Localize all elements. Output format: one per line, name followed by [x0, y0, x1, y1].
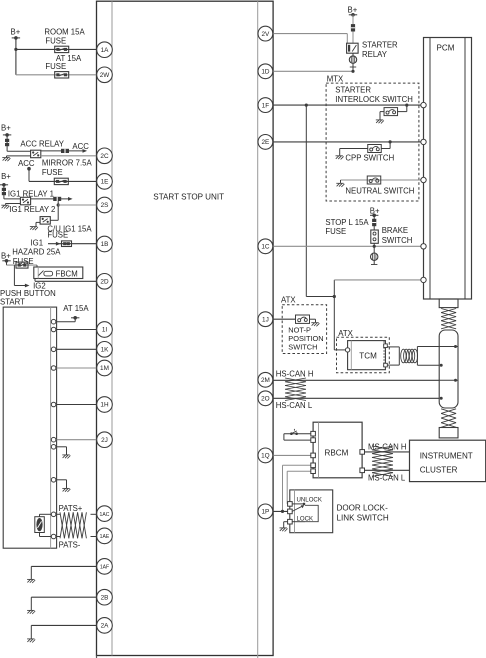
svg-text:B+: B+	[1, 172, 11, 181]
svg-text:ACC: ACC	[72, 142, 89, 151]
svg-text:1J: 1J	[262, 316, 269, 323]
svg-text:CPP SWITCH: CPP SWITCH	[345, 154, 394, 163]
svg-text:1M: 1M	[100, 365, 109, 372]
svg-text:2C: 2C	[100, 153, 109, 160]
svg-text:STOP L 15A: STOP L 15A	[325, 218, 369, 227]
svg-text:1AE: 1AE	[100, 534, 110, 540]
svg-text:ACC RELAY: ACC RELAY	[20, 140, 64, 149]
svg-text:IG1: IG1	[31, 238, 44, 247]
svg-text:2D: 2D	[100, 279, 109, 286]
svg-text:1AC: 1AC	[100, 512, 110, 518]
svg-text:B+: B+	[1, 123, 11, 132]
svg-text:1I: 1I	[102, 327, 108, 334]
svg-text:BRAKE: BRAKE	[382, 226, 408, 235]
svg-text:AT 15A: AT 15A	[63, 304, 89, 313]
svg-text:MTX: MTX	[327, 75, 344, 84]
svg-text:START STOP UNIT: START STOP UNIT	[153, 192, 224, 201]
svg-text:1B: 1B	[101, 241, 109, 248]
svg-text:1K: 1K	[101, 347, 110, 354]
svg-text:1F: 1F	[262, 102, 270, 109]
svg-text:RELAY: RELAY	[362, 50, 388, 59]
svg-text:1H: 1H	[100, 402, 109, 409]
svg-text:FUSE: FUSE	[325, 227, 346, 236]
svg-text:1AF: 1AF	[100, 565, 109, 571]
svg-text:ATX: ATX	[281, 295, 296, 304]
svg-text:1A: 1A	[101, 47, 110, 54]
svg-text:FUSE: FUSE	[42, 168, 63, 177]
svg-text:PATS+: PATS+	[59, 504, 83, 513]
svg-text:HS-CAN H: HS-CAN H	[276, 370, 314, 379]
svg-text:2S: 2S	[101, 202, 109, 209]
svg-text:2O: 2O	[261, 396, 270, 403]
svg-text:INTERLOCK SWITCH: INTERLOCK SWITCH	[335, 95, 413, 104]
svg-text:2B: 2B	[101, 594, 109, 601]
svg-text:B+: B+	[11, 27, 21, 36]
svg-text:STARTER: STARTER	[335, 86, 371, 95]
svg-text:POSITION: POSITION	[288, 334, 323, 343]
svg-text:SWITCH: SWITCH	[288, 343, 317, 352]
svg-text:IG1 RELAY 1: IG1 RELAY 1	[8, 189, 54, 198]
svg-text:TCM: TCM	[359, 352, 377, 361]
svg-text:2W: 2W	[100, 72, 111, 79]
svg-text:2M: 2M	[261, 377, 270, 384]
svg-text:IG1 RELAY 2: IG1 RELAY 2	[9, 205, 55, 214]
svg-text:2J: 2J	[101, 437, 108, 444]
svg-text:INSTRUMENT: INSTRUMENT	[420, 451, 473, 460]
svg-text:2V: 2V	[261, 31, 270, 38]
svg-text:1E: 1E	[101, 179, 109, 186]
svg-text:MS-CAN L: MS-CAN L	[368, 474, 406, 483]
svg-text:NEUTRAL SWITCH: NEUTRAL SWITCH	[345, 187, 414, 196]
svg-text:MIRROR 7.5A: MIRROR 7.5A	[42, 158, 93, 167]
svg-text:HAZARD 25A: HAZARD 25A	[12, 248, 61, 257]
svg-text:PCM: PCM	[437, 44, 455, 53]
svg-text:CLUSTER: CLUSTER	[420, 465, 458, 474]
svg-text:UNLOCK: UNLOCK	[297, 497, 322, 504]
svg-text:1P: 1P	[261, 509, 269, 516]
svg-text:B+: B+	[1, 251, 11, 260]
svg-text:HS-CAN L: HS-CAN L	[276, 401, 313, 410]
svg-text:STARTER: STARTER	[362, 41, 398, 50]
svg-text:LINK SWITCH: LINK SWITCH	[337, 514, 389, 523]
svg-text:1Q: 1Q	[261, 453, 270, 460]
svg-text:FUSE: FUSE	[47, 231, 68, 240]
svg-text:1D: 1D	[261, 69, 270, 76]
svg-text:2A: 2A	[101, 623, 110, 630]
svg-text:DOOR LOCK-: DOOR LOCK-	[337, 503, 389, 512]
svg-text:PATS-: PATS-	[59, 541, 81, 550]
svg-text:FUSE: FUSE	[45, 62, 66, 71]
svg-text:SWITCH: SWITCH	[382, 236, 413, 245]
svg-text:FUSE: FUSE	[45, 36, 66, 45]
svg-text:ACC: ACC	[18, 159, 35, 168]
svg-text:START: START	[0, 297, 25, 306]
svg-text:RBCM: RBCM	[325, 449, 349, 458]
svg-text:2E: 2E	[261, 139, 269, 146]
svg-text:1C: 1C	[261, 244, 270, 251]
svg-text:FBCM: FBCM	[56, 269, 78, 278]
svg-text:ROOM 15A: ROOM 15A	[44, 27, 85, 36]
